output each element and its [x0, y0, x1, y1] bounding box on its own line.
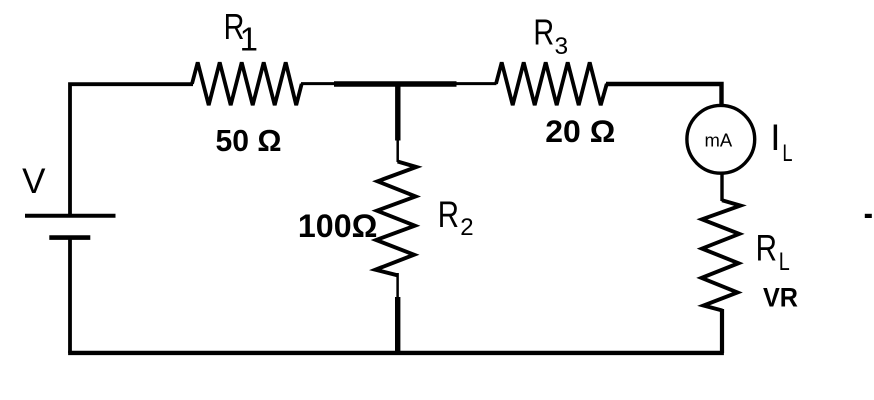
svg-text:1: 1 — [240, 21, 258, 58]
wire: R2 stem to bottom rail (thick) — [395, 297, 400, 352]
wire: ammeter to RL — [720, 173, 723, 202]
wire: top rail thin segment node to R3 — [456, 82, 497, 85]
battery V top plate — [25, 214, 116, 218]
svg-text:2: 2 — [460, 214, 473, 241]
resistor RL — [702, 200, 741, 310]
wire: top rail thin segment R1 to node — [301, 82, 336, 85]
wire: top rail left segment (battery + to R1) — [70, 84, 193, 216]
svg-text:mA: mA — [705, 130, 733, 151]
wire: battery - to bottom rail — [68, 238, 72, 353]
label R1 — [224, 6, 258, 58]
resistor R3 — [496, 62, 607, 105]
stray mark (cropped text) at right edge — [865, 214, 872, 218]
ammeter M1 (mA) — [687, 105, 755, 173]
svg-text:VR: VR — [763, 283, 798, 313]
wire: R2 stem thin upper — [396, 139, 399, 162]
wire: top rail thick segment across node A — [334, 81, 457, 87]
svg-text:I: I — [770, 117, 780, 158]
svg-text:L: L — [779, 248, 790, 276]
svg-text:R: R — [438, 195, 459, 236]
label R3 — [533, 11, 568, 60]
svg-text:R: R — [533, 11, 554, 52]
svg-text:L: L — [782, 140, 792, 167]
label R2 — [438, 195, 474, 241]
wire: RL to bottom rail — [720, 309, 724, 353]
svg-text:R: R — [756, 228, 777, 269]
svg-text:V: V — [22, 162, 46, 201]
resistor R2 — [375, 162, 416, 276]
wire: R2 stem thin lower — [396, 273, 399, 299]
wire: bottom rail — [68, 351, 724, 355]
label IL — [770, 117, 792, 167]
svg-text:50 Ω: 50 Ω — [216, 123, 282, 158]
battery V bottom plate — [49, 235, 90, 240]
wire: R2 stem from node A (thick) — [395, 84, 400, 141]
svg-text:20 Ω: 20 Ω — [545, 113, 615, 149]
svg-text:100Ω: 100Ω — [298, 208, 378, 244]
wire: top rail right segment R3 to corner — [606, 84, 722, 105]
resistor R1 — [192, 62, 302, 105]
label RL — [756, 228, 790, 275]
svg-text:3: 3 — [555, 33, 569, 60]
